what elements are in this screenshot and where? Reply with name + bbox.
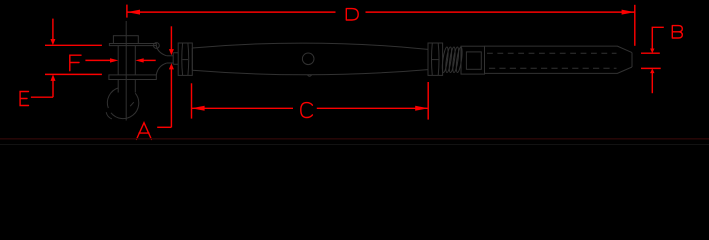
bottom dark red rule	[0, 138, 709, 140]
stud bore dashed top	[487, 52, 617, 54]
arrowhead E top	[50, 39, 55, 45]
dim C line right segment	[317, 107, 428, 109]
pin lower block	[118, 80, 135, 93]
dim B bottom shaft	[651, 72, 653, 93]
pin left edge	[117, 46, 119, 75]
label E	[20, 92, 28, 106]
arrowhead A bottom	[169, 63, 174, 69]
neck bottom	[167, 62, 173, 64]
arrowhead C left	[192, 106, 205, 111]
dim B ext bottom	[641, 67, 661, 69]
arrowhead B bottom	[650, 68, 654, 73]
taper bottom	[156, 63, 167, 75]
right nut facet 2	[437, 43, 440, 75]
arrowhead B top	[650, 49, 654, 54]
stud tube top	[485, 46, 633, 52]
label B	[672, 26, 682, 38]
dim A bottom shaft	[170, 69, 172, 127]
dim C extension left	[191, 83, 193, 118]
dim D extension left	[126, 5, 128, 18]
dim A leader	[157, 126, 171, 128]
neck top	[167, 55, 173, 57]
ring overlap end	[106, 112, 112, 119]
dim E leader	[31, 96, 53, 98]
left nut facet 2	[187, 43, 190, 75]
stud end face	[631, 53, 633, 67]
dim E bottom shaft	[52, 81, 54, 98]
right nut	[428, 43, 443, 75]
stud bore dashed bottom	[489, 67, 617, 69]
dim D line right segment	[366, 11, 635, 13]
left nut facet mid tick	[182, 59, 188, 61]
stud hex inner rect	[466, 52, 481, 69]
dim C line left segment	[192, 107, 294, 109]
label D	[346, 9, 358, 20]
dim A top shaft	[170, 26, 172, 50]
dim F right tail	[143, 59, 156, 61]
dim B bracket	[652, 27, 664, 50]
pin head	[113, 36, 138, 44]
jaw top plate	[109, 44, 156, 46]
arrowhead D right	[622, 10, 635, 15]
ring main arc	[111, 93, 139, 118]
dim E ext bottom	[45, 73, 102, 75]
dim B ext top	[641, 52, 660, 54]
arrowhead E bottom	[51, 74, 56, 81]
jaw bottom plate	[109, 75, 156, 80]
pin centerline	[125, 21, 127, 121]
left nut	[178, 43, 192, 75]
barrel left end	[191, 48, 193, 70]
thread collar step	[173, 53, 178, 65]
pin right edge	[134, 46, 136, 75]
right nut facet 1	[430, 43, 433, 75]
right nut facet mid tick	[432, 59, 439, 61]
dim E ext top	[45, 44, 102, 46]
arrowhead D left	[127, 10, 140, 15]
label C	[301, 103, 313, 118]
ring upper-left arc	[107, 88, 118, 108]
dim F leader tail	[85, 59, 111, 61]
arrowhead A top	[169, 49, 174, 55]
barrel top edge	[192, 43, 427, 49]
stud tube bottom	[485, 67, 633, 73]
dim D extension right	[634, 5, 636, 46]
label F	[70, 55, 81, 70]
barrel center hole	[302, 53, 314, 65]
arrowhead F left	[110, 58, 118, 62]
ring inner tick	[130, 102, 134, 106]
dim D line left segment	[127, 11, 336, 13]
barrel bottom notch	[307, 75, 311, 76]
flange pin circle	[154, 43, 160, 49]
dim E top shaft	[52, 19, 54, 40]
arrowhead F right	[135, 58, 143, 62]
bottom edge faint line	[0, 144, 709, 146]
taper top	[156, 46, 167, 56]
barrel bottom edge	[192, 70, 427, 75]
arrowhead C right	[415, 106, 428, 111]
dim C extension right	[427, 82, 429, 120]
label A	[137, 123, 152, 140]
stud hex section	[461, 46, 485, 74]
left nut facet 1	[181, 43, 184, 75]
threads coil	[441, 47, 463, 73]
